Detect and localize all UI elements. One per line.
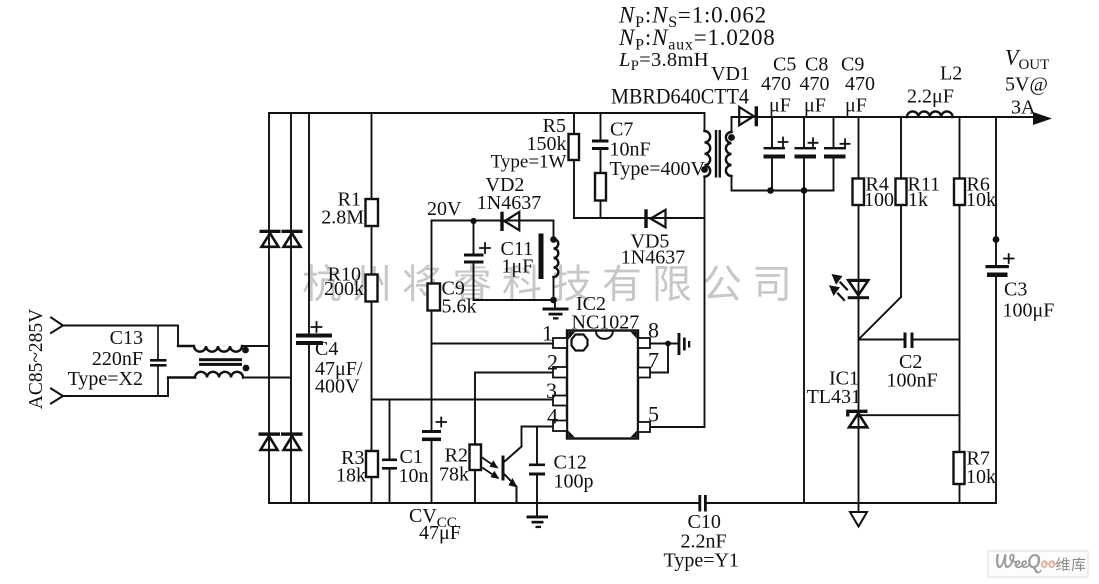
ground (primary, below C12) xyxy=(527,516,549,529)
wire choke w1 to bridge line A xyxy=(243,345,270,347)
svg-text:10k: 10k xyxy=(966,189,996,211)
wire R1-R10-R3 line xyxy=(371,113,373,503)
svg-text:1μF: 1μF xyxy=(502,256,534,278)
svg-text:C3: C3 xyxy=(1004,279,1027,301)
wire 20V node / C9 / pin1 xyxy=(432,221,554,504)
svg-text:100μF: 100μF xyxy=(1003,300,1055,322)
transformer secondary winding xyxy=(726,132,732,176)
svg-text:μF: μF xyxy=(845,95,867,117)
svg-text:LP=3.8mH: LP=3.8mH xyxy=(618,49,709,74)
capacitor C10 xyxy=(664,495,739,572)
svg-text:10k: 10k xyxy=(966,466,996,488)
junction dot C3 line xyxy=(993,236,1000,243)
transformer T1 primary winding xyxy=(705,131,711,177)
svg-text:Type=1W: Type=1W xyxy=(491,152,567,173)
wire choke w2 to bridge line B xyxy=(243,377,291,379)
svg-text:3: 3 xyxy=(546,378,557,403)
svg-text:Type=400V: Type=400V xyxy=(610,158,706,180)
wire bridge line A xyxy=(268,113,270,503)
wire AC top lead xyxy=(63,326,178,347)
svg-text:470: 470 xyxy=(845,73,875,95)
bridge diode top-right xyxy=(282,230,303,247)
IC2 pin 2 stub xyxy=(553,367,567,378)
bridge diode bottom-left xyxy=(259,432,281,450)
svg-text:5V@: 5V@ xyxy=(1005,74,1048,96)
wire C4 branch xyxy=(308,113,310,503)
wire 20V to VD2 and aux top xyxy=(432,221,554,240)
resistor R7 xyxy=(954,448,997,489)
svg-text:NC1027: NC1027 xyxy=(572,312,640,334)
svg-text:1: 1 xyxy=(542,321,553,346)
IC2 pin 7 stub xyxy=(638,368,650,378)
wire aux ground run xyxy=(474,277,556,308)
svg-text:μF: μF xyxy=(769,95,791,117)
wire pin3 net xyxy=(372,399,554,401)
svg-text:4: 4 xyxy=(547,404,558,429)
IC2 pin 8 stub xyxy=(638,338,650,348)
wire C12 branch xyxy=(536,427,538,516)
transformer primary phase dot xyxy=(701,166,708,173)
IC2 pin 4 stub xyxy=(553,421,567,432)
capacitor C1 xyxy=(382,446,429,487)
aux winding top dot xyxy=(550,236,557,243)
wire secondary ground drop xyxy=(803,191,805,504)
wire R4-LED-TL431 line xyxy=(858,117,860,512)
wire snubber C7 branch xyxy=(600,113,602,218)
svg-text:220nF: 220nF xyxy=(92,348,143,370)
wire pin4 net xyxy=(522,427,554,447)
AC input terminal bottom xyxy=(51,389,63,404)
IC2 pin 1 stub xyxy=(553,338,567,348)
wire AC bottom lead xyxy=(63,378,168,397)
svg-text:20V: 20V xyxy=(427,198,462,220)
wire C9out branch xyxy=(833,117,835,191)
svg-text:1N4637: 1N4637 xyxy=(621,247,685,269)
wire R6-R7 line xyxy=(959,117,961,503)
capacitor C9 output xyxy=(824,139,850,158)
transformer core bars xyxy=(715,130,717,178)
svg-text:L2: L2 xyxy=(940,63,962,85)
resistor R11 xyxy=(896,174,941,212)
svg-text:AC85~285V: AC85~285V xyxy=(26,309,47,409)
wire R11 diagonal to TL431 node xyxy=(859,297,902,340)
junction dot C5 bottom xyxy=(767,187,774,194)
IC1 TL431 xyxy=(807,368,868,428)
svg-text:470: 470 xyxy=(761,73,791,95)
resistor C9 5.6k xyxy=(428,278,477,318)
wire pin5 net xyxy=(650,426,705,428)
resistor R1 xyxy=(321,189,378,229)
svg-text:2.2μF: 2.2μF xyxy=(907,86,954,108)
wire bottom rail (primary side) xyxy=(269,502,699,504)
IC2 NC1027 body xyxy=(567,293,639,439)
wire secondary return xyxy=(732,176,834,191)
wire TL431 ref to R6/R7 xyxy=(860,414,960,416)
svg-text:Type=Y1: Type=Y1 xyxy=(664,550,739,572)
svg-text:C4: C4 xyxy=(315,338,338,360)
capacitor C7 xyxy=(592,119,705,181)
transformer secondary phase dot xyxy=(728,134,735,141)
wire C3 branch xyxy=(995,117,997,503)
svg-text:3A: 3A xyxy=(1011,97,1036,119)
wire C1 branch xyxy=(389,400,391,504)
svg-text:7: 7 xyxy=(648,348,659,373)
svg-text:100p: 100p xyxy=(554,471,594,493)
capacitor C4 xyxy=(296,322,363,398)
diode VD1 xyxy=(739,106,758,126)
wire C2 run xyxy=(859,339,960,341)
svg-text:47μF: 47μF xyxy=(419,522,461,544)
svg-text:10n: 10n xyxy=(399,465,429,487)
wire HV+ top rail xyxy=(269,112,705,114)
junction dot C8 bottom xyxy=(801,187,808,194)
svg-text:200k: 200k xyxy=(324,278,364,300)
bridge diode bottom-right xyxy=(281,432,303,450)
weeqoo logo xyxy=(988,551,1088,577)
resistor R4 xyxy=(853,174,895,212)
bridge diode top-left xyxy=(260,230,281,247)
capacitor C3 xyxy=(986,254,1055,322)
optocoupler phototransistor xyxy=(502,447,522,504)
wire R11 branch xyxy=(900,117,902,297)
wire snubber bottom / clamp xyxy=(574,217,705,219)
choke winding bottom xyxy=(168,372,243,378)
aux winding core bar xyxy=(539,234,544,280)
watermark xyxy=(303,264,787,302)
capacitor C11 xyxy=(464,238,533,278)
svg-text:Type=X2: Type=X2 xyxy=(68,368,143,390)
resistor R5 xyxy=(491,115,579,173)
wire snubber R5 branch xyxy=(573,113,575,218)
svg-text:400V: 400V xyxy=(315,376,360,398)
svg-text:8: 8 xyxy=(648,318,659,343)
IC2 pin 3 stub xyxy=(553,396,567,406)
capacitor C2 xyxy=(887,333,938,392)
resistor R10 xyxy=(324,264,378,302)
resistor R3 xyxy=(336,447,378,487)
resistor R2 xyxy=(439,445,481,486)
ground (secondary, open triangle) xyxy=(850,512,867,527)
output arrow xyxy=(1033,112,1052,125)
svg-text:1k: 1k xyxy=(908,189,928,211)
capacitor C13 xyxy=(68,326,167,396)
choke winding top phase dot xyxy=(242,347,249,354)
svg-text:78k: 78k xyxy=(439,464,469,486)
junction dot aux ground xyxy=(550,297,557,304)
ground (aux winding) xyxy=(543,308,569,320)
wire secondary top lead xyxy=(731,117,733,132)
svg-text:VOUT: VOUT xyxy=(1005,45,1049,74)
wire pin2 net / R2 branch xyxy=(475,373,554,504)
wire bottom rail (secondary side) xyxy=(707,502,997,504)
AC input terminal top xyxy=(51,318,63,334)
aux winding coil xyxy=(554,239,559,277)
svg-text:100: 100 xyxy=(864,189,894,211)
resistor R6 xyxy=(954,174,996,212)
svg-text:5.6k: 5.6k xyxy=(442,296,477,318)
svg-text:5: 5 xyxy=(648,402,659,427)
choke winding top xyxy=(178,346,242,352)
wire pin7 to pin8 xyxy=(650,344,668,373)
ground (pin8, sideways) xyxy=(678,333,691,355)
resistor snubber (unlabeled) xyxy=(595,173,606,201)
wire C8 branch xyxy=(803,117,805,191)
diode VD2 xyxy=(477,174,541,231)
svg-text:MBRD640CTT4: MBRD640CTT4 xyxy=(611,84,749,109)
svg-text:2: 2 xyxy=(547,350,558,375)
wire bridge line B xyxy=(290,113,292,503)
wire pin8 to ground xyxy=(650,343,678,345)
svg-text:470: 470 xyxy=(800,73,830,95)
capacitor C_VCC 47uF xyxy=(409,418,461,545)
wire C11 branch xyxy=(473,221,475,301)
svg-text:TL431: TL431 xyxy=(807,386,861,408)
capacitor C8 xyxy=(795,138,818,158)
svg-text:C13: C13 xyxy=(110,327,143,349)
junction dot C11 top xyxy=(470,218,476,224)
svg-text:μF: μF xyxy=(804,95,826,117)
IC2 pin 5 stub xyxy=(638,422,650,432)
svg-text:1N4637: 1N4637 xyxy=(477,192,541,214)
capacitor C5 xyxy=(764,138,788,159)
svg-text:VD1: VD1 xyxy=(711,63,750,85)
wire primary / drain line to pin5 xyxy=(704,113,706,427)
inductor L2 xyxy=(907,111,953,117)
svg-text:2.8M: 2.8M xyxy=(321,207,364,229)
diode VD5 xyxy=(621,209,685,268)
LED of optocoupler xyxy=(829,274,869,300)
choke core bars xyxy=(199,358,242,361)
capacitor C12 xyxy=(529,452,594,493)
svg-text:C7: C7 xyxy=(610,119,633,141)
svg-text:100nF: 100nF xyxy=(887,370,938,392)
wire C5 branch xyxy=(771,117,773,191)
choke winding bottom phase dot xyxy=(243,365,250,372)
svg-text:18k: 18k xyxy=(336,465,366,487)
wire output top rail xyxy=(732,116,1038,118)
optocoupler light arrows xyxy=(482,458,500,480)
junction dot pin7/pin8 xyxy=(665,341,671,347)
